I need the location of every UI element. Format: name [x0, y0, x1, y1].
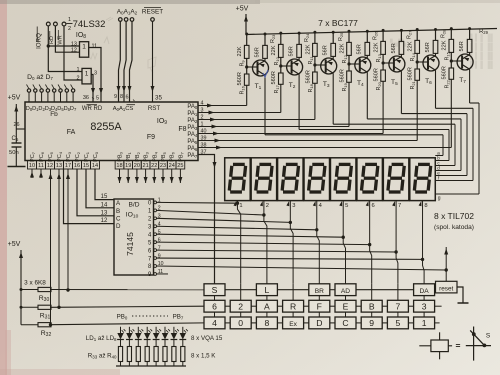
- LED LD4 VQA15: [146, 327, 148, 333]
- svg-text:▌▍▌▐▌: ▌▍▌▐▌: [470, 42, 495, 52]
- svg-text:22K: 22K: [339, 43, 345, 53]
- svg-text:19: 19: [125, 163, 131, 169]
- svg-text:3: 3: [422, 301, 427, 311]
- svg-text:2: 2: [68, 26, 71, 32]
- svg-text:D7: D7: [70, 106, 77, 112]
- svg-text:R28: R28: [441, 29, 447, 38]
- svg-text:560R: 560R: [237, 72, 243, 85]
- resistor R24 56R: [298, 33, 300, 44]
- svg-text:1: 1: [82, 44, 86, 51]
- wire key column 3 links: [266, 296, 268, 301]
- 74145 output 9 stub: [157, 273, 169, 275]
- svg-text:B/D: B/D: [129, 202, 140, 209]
- svg-text:8: 8: [120, 94, 123, 100]
- svg-text:18: 18: [116, 163, 122, 169]
- LED LD7 VQA15: [173, 327, 175, 333]
- svg-text:R21: R21: [410, 80, 416, 89]
- svg-text:22K: 22K: [271, 45, 277, 55]
- IC 74145 (IO10) body: [114, 198, 164, 279]
- resistor R37 1K5: [154, 347, 158, 362]
- svg-text:(spol. katoda): (spol. katoda): [434, 224, 474, 231]
- svg-text:56R: 56R: [459, 41, 465, 51]
- svg-text:Fb: Fb: [50, 111, 58, 118]
- svg-text:16: 16: [74, 163, 80, 169]
- svg-text:PA7: PA7: [187, 153, 198, 159]
- svg-text:B: B: [116, 208, 120, 215]
- wire collector T3 to segment bus: [332, 73, 334, 124]
- key 2: [230, 300, 251, 312]
- wire 74145 output 1 to display 2 / key column 3: [157, 210, 264, 215]
- svg-text:9: 9: [114, 94, 117, 100]
- wire collector T1 to segment bus: [264, 75, 266, 135]
- svg-text:5: 5: [396, 318, 401, 328]
- svg-text:56R: 56R: [323, 45, 329, 55]
- wire key column 8 links: [397, 284, 399, 301]
- svg-text:1: 1: [422, 318, 427, 328]
- svg-text:g: g: [438, 196, 441, 202]
- display 7 common pin: [392, 201, 395, 206]
- label 8 x TIL702: [434, 211, 474, 231]
- svg-text:5: 5: [345, 203, 348, 209]
- key B: [361, 300, 382, 312]
- LED LD3 VQA15: [137, 327, 139, 333]
- svg-text:PA4: PA4: [187, 132, 198, 138]
- svg-text:7: 7: [396, 301, 401, 311]
- svg-text:22: 22: [151, 163, 157, 169]
- power +5V (8255 pin 26): [8, 95, 25, 144]
- wire WR to gate pin 2: [64, 26, 82, 80]
- svg-text:▌▍▌▐▌: ▌▍▌▐▌: [470, 51, 495, 61]
- key S: [204, 284, 225, 296]
- key 5: [387, 317, 408, 329]
- wire RD to gate pin 12: [55, 26, 79, 52]
- key DA: [414, 284, 435, 296]
- svg-text:560R: 560R: [305, 70, 311, 83]
- resistor R11 22K: [314, 32, 316, 43]
- svg-text:R9: R9: [240, 60, 246, 67]
- capacitor C6 50n: [9, 136, 22, 166]
- svg-text:RESET: RESET: [142, 9, 163, 16]
- key 3: [414, 300, 435, 312]
- power +5V (keyboard pull-ups): [8, 241, 23, 325]
- svg-text:R32: R32: [41, 330, 52, 338]
- svg-text:PA5: PA5: [187, 139, 198, 145]
- resistor R19 560R: [347, 62, 350, 65]
- svg-text:R15: R15: [444, 51, 450, 60]
- pencil marks (faint scan artifacts): [88, 17, 156, 73]
- label R33 az R40: [88, 353, 117, 360]
- svg-text:15: 15: [101, 194, 108, 200]
- svg-text:R12: R12: [342, 54, 348, 63]
- svg-text:+5V: +5V: [8, 95, 21, 102]
- key 4: [204, 317, 225, 329]
- wire collector T4 to segment bus: [366, 72, 368, 119]
- svg-text:R20: R20: [376, 81, 382, 90]
- transistor T6 BC177 (PNP): [423, 55, 439, 71]
- svg-text:13: 13: [101, 210, 108, 216]
- svg-text:56R: 56R: [254, 47, 260, 57]
- resistor R25 56R: [332, 32, 334, 43]
- svg-text:23: 23: [160, 163, 166, 169]
- label LD1 az LD8: [86, 335, 117, 342]
- LED LD2 VQA15: [128, 327, 130, 333]
- wire 74145 output 6 to display 7 / key column 8: [157, 250, 397, 252]
- wire key column 7 links: [371, 284, 373, 301]
- svg-text:A: A: [264, 301, 270, 311]
- wire keyboard row 3: [225, 322, 230, 324]
- svg-text:R22: R22: [444, 79, 450, 88]
- resistor R13 22K: [382, 30, 384, 41]
- key reset: [436, 247, 469, 303]
- resistor R12 22K: [348, 31, 350, 42]
- svg-text:0: 0: [238, 318, 243, 328]
- svg-text:R25: R25: [338, 32, 344, 41]
- display LD7 TIL702 digit 7: [383, 158, 409, 201]
- wire key column 9 links: [423, 296, 425, 301]
- svg-text:L: L: [265, 285, 270, 295]
- svg-text:560R: 560R: [339, 69, 345, 82]
- svg-text:▌▍▌▐▌: ▌▍▌▐▌: [470, 60, 495, 70]
- LED LD5 VQA15: [155, 327, 157, 333]
- svg-text:1: 1: [239, 203, 242, 209]
- resistor R35 1K5: [136, 347, 140, 362]
- svg-text:15: 15: [83, 163, 89, 169]
- svg-text:F9: F9: [147, 134, 155, 141]
- key F: [309, 300, 330, 312]
- label 8 x VQA 15: [191, 335, 223, 342]
- svg-text:R30: R30: [39, 295, 50, 303]
- wire PA0 to R16: [198, 105, 247, 107]
- display 2 common pin: [260, 201, 263, 206]
- svg-text:S: S: [212, 285, 218, 295]
- label IO8: [76, 32, 86, 40]
- wire keyboard row 1: [225, 289, 256, 291]
- LED LD1 VQA15: [120, 327, 122, 333]
- wire segment f to display: [472, 108, 474, 180]
- svg-text:F8: F8: [178, 126, 186, 133]
- wire 74145 output 0 to display 1 / key column 2: [157, 201, 238, 204]
- resistor R38 1K5: [163, 347, 167, 362]
- wire PC6 (pin12) to keyboard row 3: [49, 169, 53, 326]
- svg-text:PB7: PB7: [173, 314, 184, 321]
- key R: [283, 300, 304, 312]
- svg-text:2: 2: [266, 203, 269, 209]
- svg-text:IORQ: IORQ: [36, 33, 43, 49]
- svg-text:10: 10: [29, 163, 35, 169]
- svg-text:LD1 až LD8: LD1 až LD8: [86, 335, 117, 342]
- key 8: [256, 317, 277, 329]
- svg-text:R10: R10: [274, 56, 280, 65]
- svg-text:A0A1A2: A0A1A2: [117, 9, 138, 16]
- key 0: [230, 317, 251, 329]
- svg-text:F: F: [317, 301, 322, 311]
- svg-text:6: 6: [125, 94, 128, 100]
- display 8 common pin: [419, 201, 422, 206]
- resistor R21 560R: [416, 60, 419, 63]
- resistor R40 1K5: [181, 347, 185, 362]
- svg-text:+5V: +5V: [236, 6, 249, 13]
- wire PC1 (pin15) to 74145 B pin14: [86, 169, 114, 208]
- wire segment g to display: [478, 103, 480, 194]
- wire PA5 to R21: [198, 140, 417, 142]
- key L: [256, 284, 277, 296]
- stub arrows PC7 PC6: [30, 169, 43, 178]
- resistor R26 56R: [366, 31, 368, 42]
- wire segment c to display: [454, 124, 456, 165]
- wire IORQ to gate inputs: [47, 26, 82, 72]
- svg-text:R16: R16: [240, 85, 246, 94]
- LED indicators: [117, 314, 188, 367]
- svg-text:6: 6: [372, 203, 375, 209]
- svg-text:74LS32: 74LS32: [73, 19, 106, 30]
- svg-text:PA6: PA6: [187, 146, 198, 152]
- terminals A0 A1 A2 to 8255 pins 9,8,6: [117, 9, 138, 102]
- resistor R34 1K5: [127, 347, 131, 362]
- resistor R32 6K8: [21, 323, 204, 338]
- 74145 input wires: [64, 169, 115, 224]
- 8255 port A pin labels PA0-PA7: [187, 101, 206, 159]
- svg-text:reset: reset: [439, 285, 453, 292]
- wire PC4 (pin17) to keyboard row 1: [66, 169, 70, 292]
- wire PA4 to R20: [198, 133, 383, 135]
- label 7 x BC177: [318, 18, 358, 28]
- wire collector T6 to segment bus: [435, 70, 437, 108]
- wire PA3 to R19: [198, 126, 349, 128]
- or-gate U1a (74LS32) pins 13,12,11: [71, 41, 97, 57]
- svg-text:RST: RST: [148, 105, 161, 112]
- wire 74145 output 2 to display 3 / key column 4: [157, 218, 291, 222]
- transistor T5 BC177 (PNP): [389, 56, 405, 72]
- svg-text:PB0: PB0: [117, 314, 128, 321]
- key 7: [387, 300, 408, 312]
- svg-text:6: 6: [212, 301, 217, 311]
- svg-text:AD: AD: [341, 288, 350, 295]
- svg-text:4: 4: [212, 318, 217, 328]
- transistor T3 BC177 (PNP): [321, 58, 337, 74]
- key 6: [204, 300, 225, 312]
- transistor T4 BC177 (PNP): [355, 57, 371, 73]
- svg-text:36: 36: [83, 95, 89, 101]
- svg-text:7: 7: [398, 203, 401, 209]
- svg-text:1: 1: [85, 70, 89, 77]
- wire PA2 to R18: [198, 119, 315, 121]
- bus D0..D7 terminals to 8255 data pins: [27, 74, 75, 102]
- transistor T7 BC177 (PNP): [457, 54, 473, 70]
- svg-text:2: 2: [238, 301, 243, 311]
- wire 74145 output 3 to display 4 / key column 5: [157, 226, 317, 230]
- svg-text:13: 13: [56, 163, 62, 169]
- svg-text:C6: C6: [12, 136, 19, 142]
- svg-text:+5V: +5V: [8, 241, 21, 248]
- power +5V rail (transistor supply): [236, 6, 497, 35]
- svg-text:12: 12: [47, 163, 53, 169]
- svg-text:74145: 74145: [125, 232, 135, 256]
- transistor T1 BC177 (PNP): [253, 60, 269, 76]
- resistor R17 560R: [279, 64, 282, 67]
- svg-text:IO8: IO8: [76, 32, 86, 40]
- 74145 output wiring: [157, 201, 425, 284]
- svg-text:R14: R14: [410, 52, 416, 61]
- display LD2 TIL702 digit 2: [251, 158, 277, 201]
- svg-text:8: 8: [265, 318, 270, 328]
- svg-text:3: 3: [292, 203, 295, 209]
- svg-text:=: =: [456, 341, 461, 351]
- svg-text:56R: 56R: [391, 43, 397, 53]
- svg-text:22K: 22K: [374, 42, 380, 52]
- wire segment b to display: [448, 130, 450, 161]
- svg-text:DA: DA: [420, 288, 430, 295]
- svg-text:50n: 50n: [9, 150, 19, 156]
- svg-text:9: 9: [369, 318, 374, 328]
- label 3 x 6K8: [24, 280, 46, 287]
- svg-text:C: C: [342, 318, 348, 328]
- ground (C6): [8, 166, 26, 168]
- resistor R31 6K8: [20, 305, 205, 320]
- svg-text:R24: R24: [304, 33, 310, 42]
- svg-text:12: 12: [101, 218, 108, 224]
- svg-text:R29: R29: [479, 29, 489, 35]
- svg-text:FA: FA: [67, 129, 76, 136]
- keyboard matrix: [204, 284, 442, 329]
- resistor R15 22K: [450, 29, 452, 40]
- display 1 common pin: [234, 201, 237, 206]
- svg-text:8: 8: [424, 203, 427, 209]
- display LD4 TIL702 digit 4: [304, 158, 330, 201]
- wire DA to reset: [434, 289, 437, 291]
- wire segment e to display: [466, 114, 468, 176]
- svg-text:D: D: [116, 223, 121, 230]
- display row 8x TIL702: [225, 158, 436, 209]
- display LD5 TIL702 digit 5: [330, 158, 356, 201]
- LED LD8 VQA15: [182, 327, 184, 333]
- wire key column 4 links: [292, 284, 294, 301]
- svg-text:56R: 56R: [289, 46, 295, 56]
- svg-text:8 x TIL702: 8 x TIL702: [434, 211, 474, 221]
- wire collector T7 to segment bus: [469, 69, 471, 103]
- svg-text:1: 1: [68, 17, 71, 23]
- svg-text:21: 21: [142, 163, 148, 169]
- svg-text:R23: R23: [270, 34, 276, 43]
- svg-text:22K: 22K: [442, 40, 448, 50]
- svg-text:3: 3: [94, 70, 97, 76]
- svg-text:8255A: 8255A: [90, 121, 122, 133]
- wire segment a to display: [442, 135, 444, 156]
- wire PA1 to R17: [198, 112, 281, 114]
- svg-text:560R: 560R: [408, 67, 414, 80]
- blue pen mark: [263, 70, 268, 77]
- svg-text:R27: R27: [406, 30, 412, 39]
- svg-text:WR RD: WR RD: [82, 106, 103, 112]
- svg-text:22K: 22K: [305, 44, 311, 54]
- display 5 common pin: [339, 201, 342, 206]
- svg-text:8 x VQA 15: 8 x VQA 15: [191, 335, 223, 342]
- svg-text:35: 35: [155, 94, 162, 101]
- wire row stubs: [435, 305, 442, 307]
- svg-text:24: 24: [169, 163, 175, 169]
- key Ex: [283, 317, 304, 329]
- svg-text:56R: 56R: [357, 44, 363, 54]
- svg-text:C: C: [116, 216, 121, 223]
- svg-text:5: 5: [96, 96, 99, 102]
- resistor R10 22K: [280, 33, 282, 44]
- 74145 output 8 to reset key: [157, 266, 448, 281]
- display LD3 TIL702 digit 3: [278, 158, 304, 201]
- resistor R27 56R: [400, 30, 402, 41]
- wire key column 1 links: [214, 296, 216, 301]
- resistor R14 22K: [416, 30, 418, 41]
- terminal RESET to 8255 pin 35 (RST): [142, 8, 163, 102]
- resistor R9 22K: [246, 34, 248, 45]
- svg-text:14: 14: [92, 163, 98, 169]
- svg-text:B: B: [369, 301, 375, 311]
- resistor R36 1K5: [145, 347, 149, 362]
- wire 74145 output 4 to display 5 / key column 6: [157, 234, 344, 237]
- svg-text:S: S: [486, 333, 491, 340]
- svg-text:PA1: PA1: [187, 111, 198, 117]
- svg-text:11: 11: [92, 43, 98, 49]
- svg-text:25: 25: [177, 163, 183, 169]
- svg-text:R26: R26: [372, 31, 378, 40]
- key E: [335, 300, 356, 312]
- svg-text:Ex: Ex: [289, 321, 297, 328]
- svg-text:14: 14: [101, 202, 108, 208]
- key BR: [309, 284, 330, 296]
- key 1: [414, 317, 435, 329]
- segment bus: [435, 103, 479, 202]
- svg-text:20: 20: [134, 163, 140, 169]
- LED LD6 VQA15: [164, 327, 166, 333]
- or-gate U1b (74LS32) pins 1,2,3: [76, 67, 97, 84]
- svg-text:560R: 560R: [271, 71, 277, 84]
- wire collector T5 to segment bus: [400, 71, 402, 113]
- resistor R18 560R: [313, 63, 316, 66]
- svg-text:R19: R19: [342, 82, 348, 91]
- IC 8255A body and labels: [25, 94, 198, 161]
- svg-text:E: E: [343, 301, 349, 311]
- svg-text:22K: 22K: [237, 46, 243, 56]
- resistor R33 1K5: [118, 347, 122, 362]
- key C: [335, 317, 356, 329]
- svg-text:R: R: [290, 301, 296, 311]
- display 3 common pin: [286, 201, 289, 206]
- wire PC0 (pin14) to 74145 A pin15: [95, 169, 114, 200]
- label 1/2 74LS32: [67, 17, 106, 32]
- svg-text:17: 17: [65, 163, 71, 169]
- display LD1 TIL702 digit 1: [225, 158, 251, 201]
- svg-text:R31: R31: [40, 313, 51, 321]
- svg-text:BR: BR: [315, 288, 324, 295]
- legend key symbol: [419, 332, 460, 359]
- wire segment d to display: [460, 119, 462, 171]
- wire 74145 output 7 to display 8 / key column 9: [157, 258, 423, 259]
- 8255 port C pins (10,11,12,13,17,16,15,14): [28, 151, 100, 169]
- svg-text:56R: 56R: [425, 42, 431, 52]
- svg-text:R17: R17: [274, 84, 280, 93]
- svg-text:A0A1CS: A0A1CS: [113, 106, 134, 112]
- svg-text:D: D: [316, 318, 322, 328]
- wire PA6 to R22: [198, 147, 451, 149]
- svg-text:R11: R11: [308, 56, 314, 65]
- svg-text:IO9: IO9: [157, 118, 167, 126]
- key 9: [361, 317, 382, 329]
- resistor R22 560R: [450, 59, 453, 62]
- display LD8 TIL702 digit 8: [410, 158, 436, 201]
- wire PC5 (pin13) to keyboard row 2: [57, 169, 61, 309]
- svg-text:PA3: PA3: [187, 125, 198, 131]
- wire gate1 out to 8255 RD pin 5: [89, 48, 103, 102]
- resistor R20 560R: [382, 61, 385, 64]
- svg-text:11: 11: [38, 163, 44, 169]
